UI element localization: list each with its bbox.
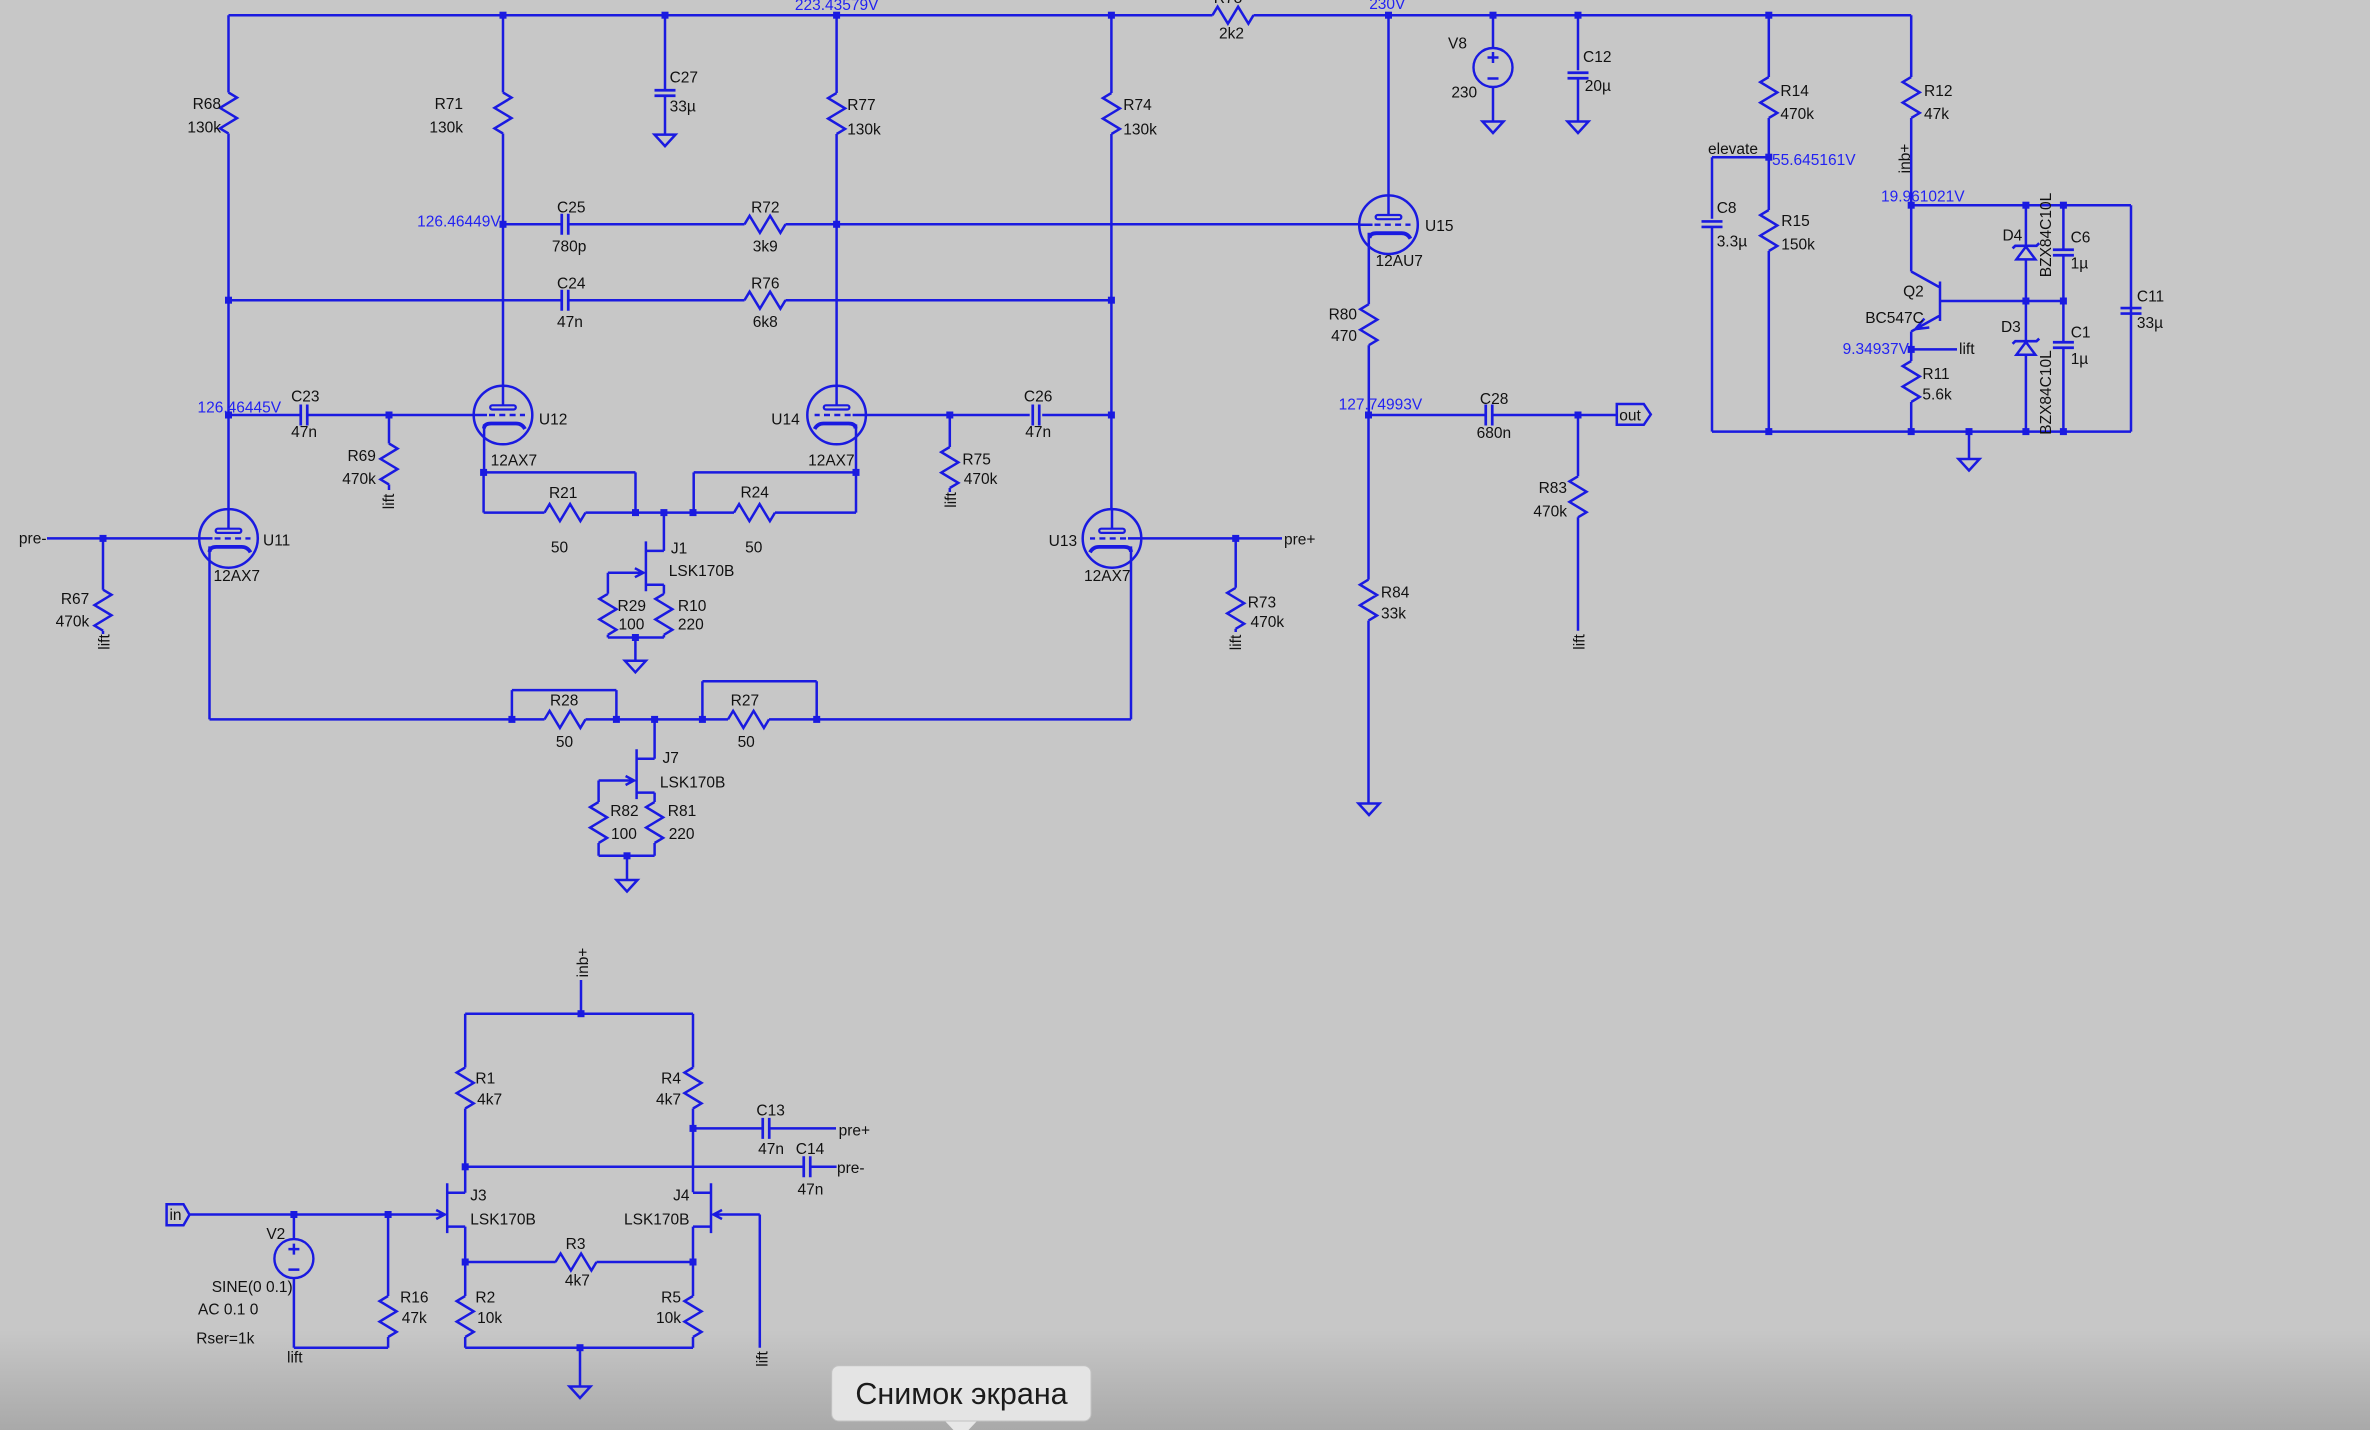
svg-text:V2: V2 <box>266 1226 285 1243</box>
svg-text:J7: J7 <box>663 750 679 767</box>
svg-text:R12: R12 <box>1924 83 1952 100</box>
svg-text:220: 220 <box>669 826 695 843</box>
svg-text:470k: 470k <box>56 614 90 631</box>
svg-text:LSK170B: LSK170B <box>624 1211 690 1228</box>
svg-text:AC 0.1 0: AC 0.1 0 <box>198 1302 259 1319</box>
svg-text:R21: R21 <box>549 485 577 502</box>
svg-text:R77: R77 <box>847 97 875 114</box>
svg-text:5.6k: 5.6k <box>1922 386 1952 403</box>
svg-text:3k9: 3k9 <box>753 238 778 255</box>
svg-text:10k: 10k <box>656 1310 681 1327</box>
svg-text:33µ: 33µ <box>2137 315 2163 332</box>
svg-text:33k: 33k <box>1381 606 1406 623</box>
svg-text:470k: 470k <box>1533 504 1567 521</box>
svg-text:R76: R76 <box>751 275 779 292</box>
svg-text:R5: R5 <box>661 1289 681 1306</box>
svg-text:LSK170B: LSK170B <box>660 775 726 792</box>
svg-text:C6: C6 <box>2071 230 2091 247</box>
svg-text:R28: R28 <box>550 693 578 710</box>
svg-text:Q2: Q2 <box>1903 284 1924 301</box>
svg-text:lift: lift <box>1959 341 1975 358</box>
svg-text:C25: C25 <box>557 200 585 217</box>
svg-text:pre-: pre- <box>19 531 47 548</box>
svg-text:6k8: 6k8 <box>753 314 778 331</box>
svg-text:100: 100 <box>619 616 645 633</box>
svg-text:47n: 47n <box>557 314 583 331</box>
svg-text:10k: 10k <box>477 1310 502 1327</box>
svg-text:BZX84C10L: BZX84C10L <box>2038 192 2055 277</box>
svg-text:C27: C27 <box>670 69 698 86</box>
svg-text:J1: J1 <box>671 541 687 558</box>
svg-text:inb+: inb+ <box>1897 144 1914 174</box>
svg-text:20µ: 20µ <box>1585 78 1611 95</box>
svg-text:470: 470 <box>1331 328 1357 345</box>
svg-text:130k: 130k <box>847 122 881 139</box>
svg-text:R10: R10 <box>678 598 707 615</box>
svg-text:47n: 47n <box>798 1181 824 1198</box>
svg-text:R2: R2 <box>475 1289 495 1306</box>
svg-text:780p: 780p <box>552 238 586 255</box>
svg-text:lift: lift <box>1572 634 1589 650</box>
svg-text:lift: lift <box>943 492 960 508</box>
svg-text:Снимок экрана: Снимок экрана <box>855 1377 1067 1411</box>
svg-text:R68: R68 <box>193 96 221 113</box>
svg-text:470k: 470k <box>1251 614 1285 631</box>
svg-text:elevate: elevate <box>1708 141 1758 158</box>
svg-text:SINE(0 0.1): SINE(0 0.1) <box>212 1279 293 1296</box>
svg-text:47n: 47n <box>758 1141 784 1158</box>
svg-text:126.46445V: 126.46445V <box>198 400 282 417</box>
svg-text:50: 50 <box>556 734 574 751</box>
svg-text:47k: 47k <box>402 1310 427 1327</box>
svg-text:R16: R16 <box>400 1289 428 1306</box>
svg-text:BZX84C10L: BZX84C10L <box>2038 350 2055 435</box>
svg-text:4k7: 4k7 <box>656 1092 681 1109</box>
svg-text:127.74993V: 127.74993V <box>1339 397 1423 414</box>
svg-text:D3: D3 <box>2001 319 2021 336</box>
svg-text:R82: R82 <box>610 803 638 820</box>
svg-text:pre+: pre+ <box>839 1123 870 1140</box>
svg-text:C13: C13 <box>756 1102 784 1119</box>
svg-text:in: in <box>169 1207 181 1224</box>
svg-text:470k: 470k <box>342 471 376 488</box>
svg-text:50: 50 <box>738 734 756 751</box>
svg-text:U13: U13 <box>1049 533 1077 550</box>
svg-text:R73: R73 <box>1248 595 1276 612</box>
svg-text:R69: R69 <box>347 448 375 465</box>
svg-text:100: 100 <box>611 826 637 843</box>
svg-text:33µ: 33µ <box>670 98 696 115</box>
svg-text:126.46449V: 126.46449V <box>417 214 501 231</box>
svg-text:R75: R75 <box>962 452 990 469</box>
svg-text:R80: R80 <box>1329 307 1358 324</box>
svg-text:lift: lift <box>287 1349 303 1366</box>
svg-text:C12: C12 <box>1583 49 1611 66</box>
svg-text:C24: C24 <box>557 275 586 292</box>
svg-text:pre+: pre+ <box>1284 532 1315 549</box>
svg-text:12AX7: 12AX7 <box>491 452 538 469</box>
svg-text:130k: 130k <box>187 120 221 137</box>
svg-text:R11: R11 <box>1922 366 1949 383</box>
svg-text:R27: R27 <box>731 693 759 710</box>
svg-text:LSK170B: LSK170B <box>669 563 735 580</box>
svg-text:R24: R24 <box>740 485 769 502</box>
svg-text:U12: U12 <box>539 411 567 428</box>
svg-text:D4: D4 <box>2002 228 2022 245</box>
svg-text:BC547C: BC547C <box>1865 310 1924 327</box>
svg-text:R29: R29 <box>618 598 646 615</box>
svg-text:U11: U11 <box>263 533 290 550</box>
svg-text:R74: R74 <box>1123 97 1152 114</box>
svg-text:R83: R83 <box>1539 480 1567 497</box>
svg-text:R78: R78 <box>1214 0 1242 7</box>
svg-text:220: 220 <box>678 616 704 633</box>
svg-text:230: 230 <box>1451 85 1477 102</box>
svg-text:J3: J3 <box>470 1187 486 1204</box>
svg-text:C1: C1 <box>2071 325 2091 342</box>
svg-text:50: 50 <box>745 540 763 557</box>
svg-text:47n: 47n <box>1025 424 1051 441</box>
svg-text:J4: J4 <box>673 1187 690 1204</box>
svg-text:C14: C14 <box>796 1141 825 1158</box>
svg-text:lift: lift <box>97 634 114 650</box>
svg-text:150k: 150k <box>1781 237 1815 254</box>
svg-text:pre-: pre- <box>837 1160 865 1177</box>
svg-text:C8: C8 <box>1717 200 1737 217</box>
svg-text:130k: 130k <box>429 120 463 137</box>
svg-text:680n: 680n <box>1477 425 1511 442</box>
svg-text:C23: C23 <box>291 389 319 406</box>
svg-text:R67: R67 <box>61 591 89 608</box>
svg-text:R14: R14 <box>1780 83 1809 100</box>
svg-text:R15: R15 <box>1781 213 1809 230</box>
svg-text:12AX7: 12AX7 <box>808 452 855 469</box>
svg-text:2k2: 2k2 <box>1219 26 1244 43</box>
svg-text:C28: C28 <box>1480 391 1508 408</box>
svg-text:R71: R71 <box>435 96 463 113</box>
svg-text:4k7: 4k7 <box>477 1092 502 1109</box>
svg-text:U14: U14 <box>771 411 800 428</box>
svg-text:V8: V8 <box>1448 36 1467 53</box>
svg-text:LSK170B: LSK170B <box>470 1211 536 1228</box>
svg-text:U15: U15 <box>1425 218 1453 235</box>
svg-text:R81: R81 <box>668 803 696 820</box>
svg-text:R72: R72 <box>751 200 779 217</box>
svg-text:50: 50 <box>551 540 569 557</box>
svg-text:R4: R4 <box>661 1070 681 1087</box>
svg-text:R1: R1 <box>475 1070 495 1087</box>
svg-text:470k: 470k <box>964 471 998 488</box>
svg-text:12AX7: 12AX7 <box>1084 568 1131 585</box>
svg-text:C26: C26 <box>1024 389 1052 406</box>
svg-text:223.43579V: 223.43579V <box>795 0 879 14</box>
svg-text:12AX7: 12AX7 <box>214 568 261 585</box>
svg-text:lift: lift <box>1228 634 1245 650</box>
svg-text:230V: 230V <box>1369 0 1406 13</box>
svg-text:47n: 47n <box>291 424 317 441</box>
svg-text:C11: C11 <box>2137 289 2164 306</box>
svg-text:Rser=1k: Rser=1k <box>196 1330 254 1347</box>
svg-text:3.3µ: 3.3µ <box>1717 234 1748 251</box>
svg-text:R84: R84 <box>1381 585 1410 602</box>
svg-text:R3: R3 <box>566 1236 586 1253</box>
svg-text:out: out <box>1619 407 1641 424</box>
svg-text:lift: lift <box>755 1351 772 1367</box>
svg-text:4k7: 4k7 <box>565 1272 590 1289</box>
svg-text:1µ: 1µ <box>2071 256 2089 273</box>
svg-text:inb+: inb+ <box>575 948 592 978</box>
svg-text:470k: 470k <box>1780 106 1814 123</box>
svg-text:12AU7: 12AU7 <box>1376 253 1423 270</box>
svg-text:lift: lift <box>381 493 398 509</box>
svg-text:9.34937V: 9.34937V <box>1843 341 1910 358</box>
svg-text:19.961021V: 19.961021V <box>1881 189 1965 206</box>
svg-text:130k: 130k <box>1123 122 1157 139</box>
svg-text:1µ: 1µ <box>2071 351 2089 368</box>
svg-text:47k: 47k <box>1924 106 1949 123</box>
svg-text:55.645161V: 55.645161V <box>1772 152 1856 169</box>
